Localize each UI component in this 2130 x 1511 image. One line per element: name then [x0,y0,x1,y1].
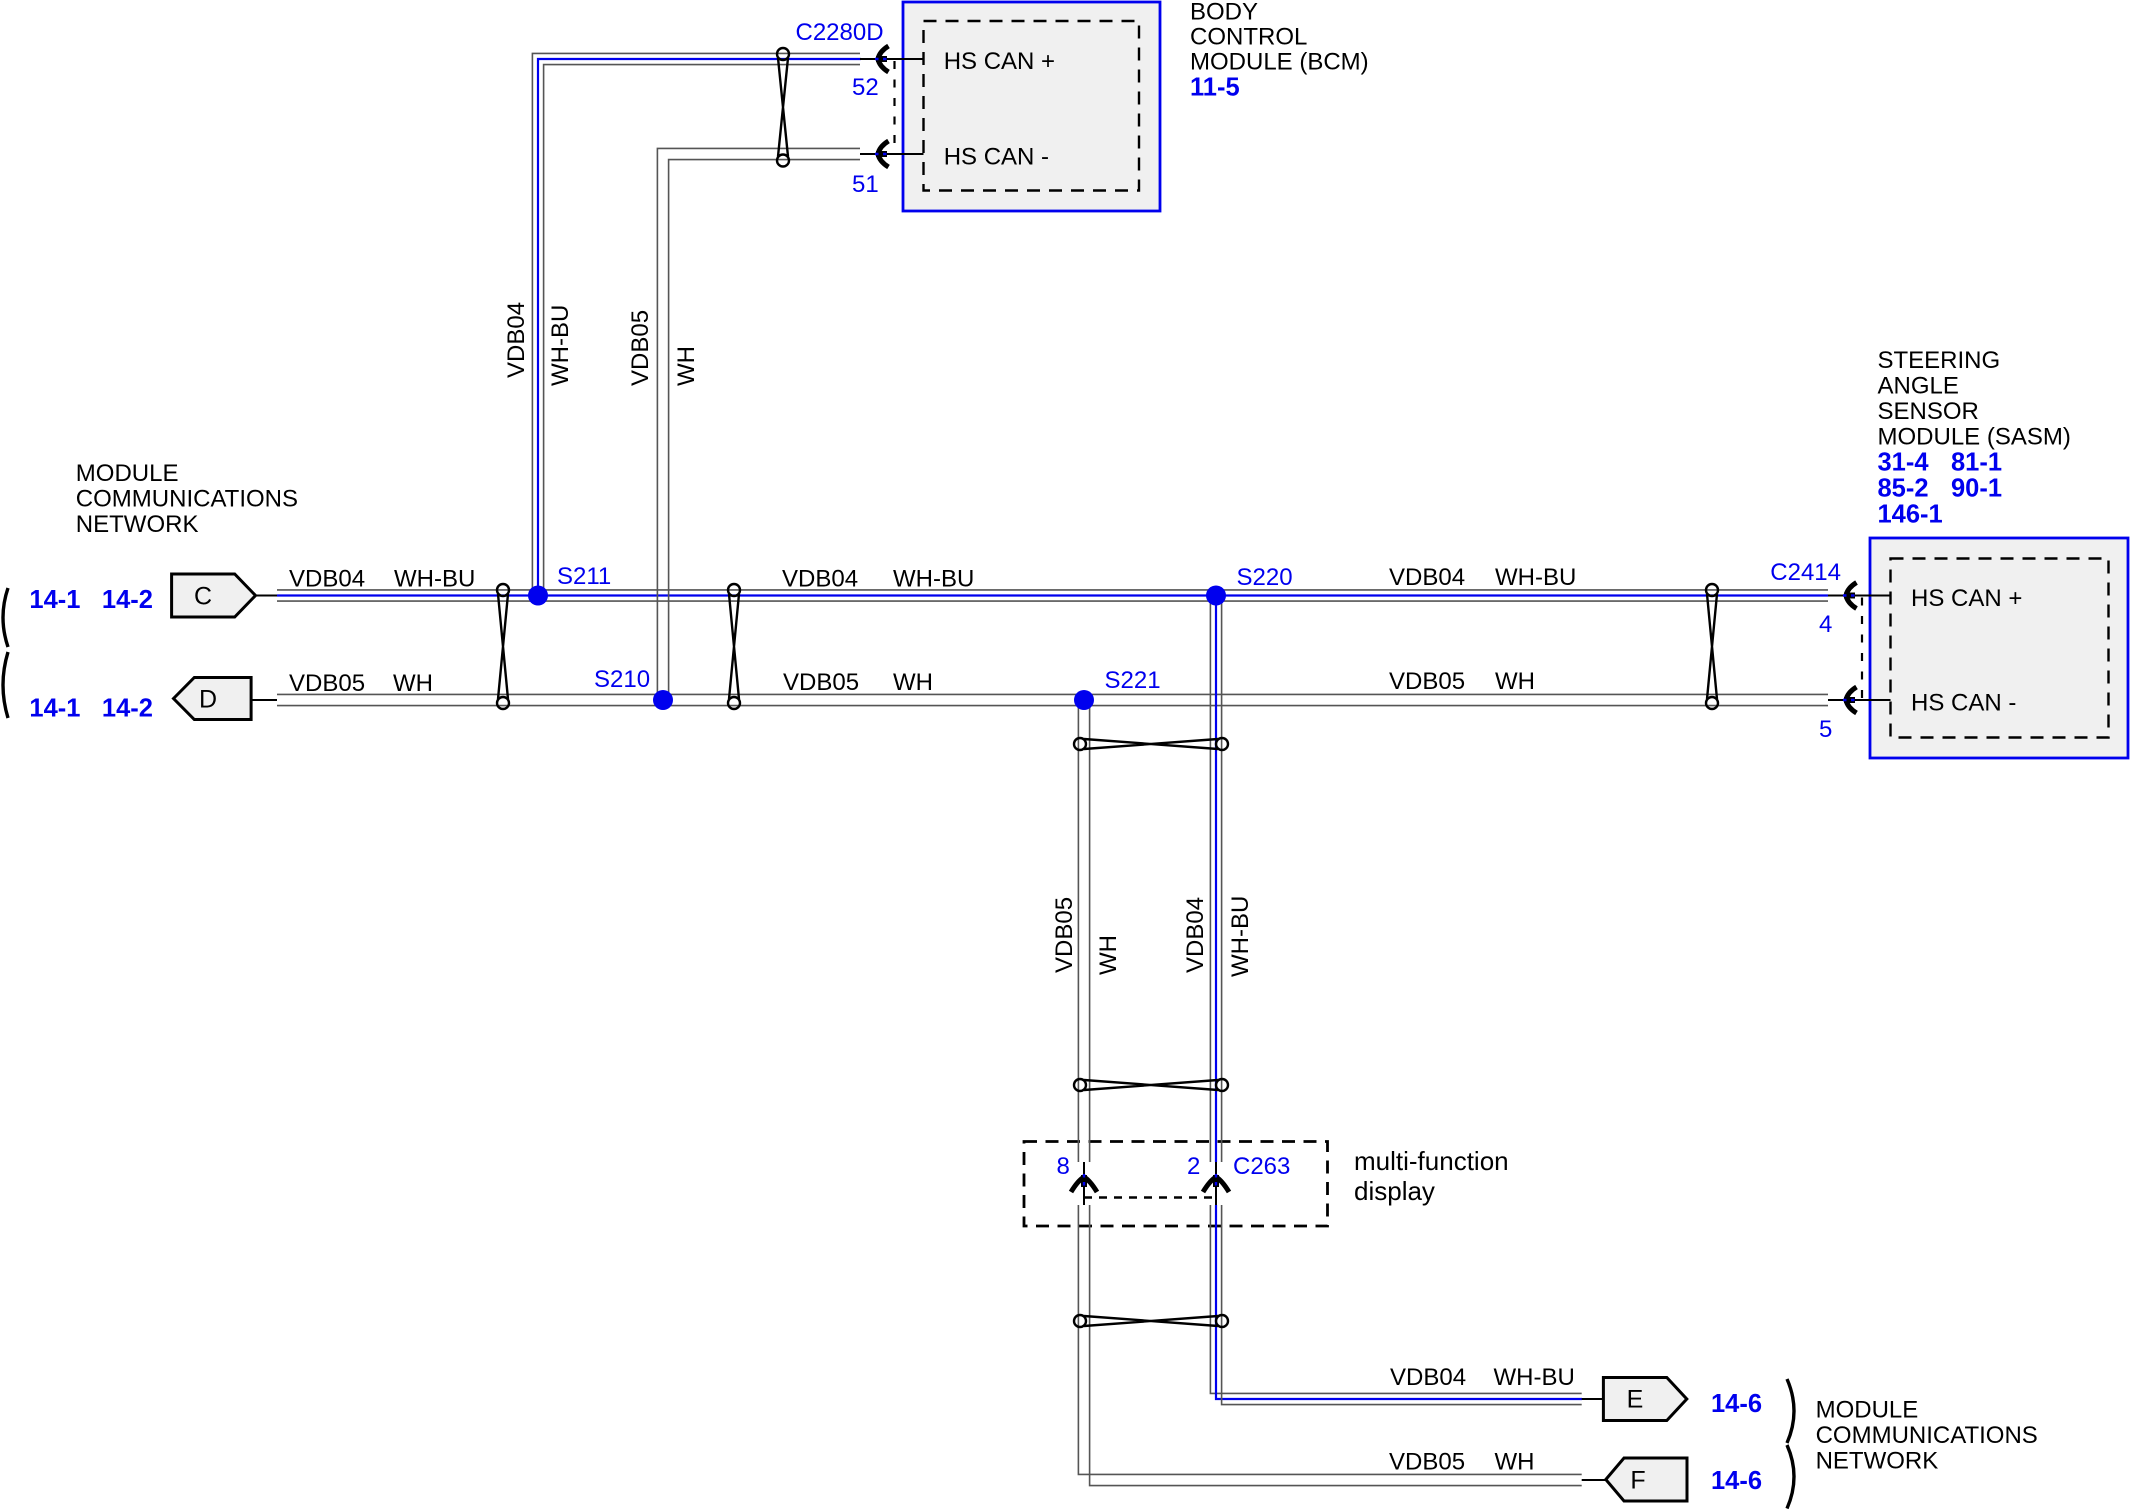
svg-text:VDB04: VDB04 [289,566,365,593]
svg-text:WH: WH [1495,1448,1535,1475]
svg-text:VDB04: VDB04 [782,566,858,593]
twisted pair symbol on display branch below S221 [1074,738,1086,750]
svg-text:2: 2 [1187,1153,1200,1180]
svg-text:E: E [1627,1386,1644,1414]
wire below display pin 2 to connector E [1210,1205,1581,1393]
svg-text:WH: WH [1495,668,1535,695]
wire below display pin 8 to connector F [1078,1205,1581,1474]
brace for connector C row [3,588,8,647]
off-page connector F [1606,1458,1687,1501]
svg-text:VDB05: VDB05 [289,670,365,697]
svg-text:MODULE: MODULE [76,460,179,487]
svg-text:S210: S210 [594,666,650,693]
pin 51 arrow at BCM [878,141,889,167]
svg-text:VDB04: VDB04 [1389,564,1465,591]
svg-text:11-5: 11-5 [1190,74,1240,102]
svg-text:C2414: C2414 [1770,559,1841,586]
twisted pair symbol on C/D pair near SASM [1706,584,1718,596]
svg-text:CONTROL: CONTROL [1190,24,1307,51]
splice S210 [653,690,673,710]
twisted pair symbol on C/D pair near connectors [497,584,509,596]
splice S221 [1074,690,1094,710]
svg-text:WH: WH [393,670,433,697]
svg-text:S211: S211 [557,563,611,590]
off-page connector C [172,574,256,617]
svg-text:VDB05: VDB05 [783,669,859,696]
svg-text:BODY: BODY [1190,0,1258,26]
svg-text:31-4: 31-4 [1878,449,1930,477]
pin 52 arrow at BCM [878,46,889,72]
svg-text:14-1: 14-1 [29,586,80,614]
wire branch S211 to BCM pin 52 (VDB04 WH-BU) [532,53,860,595]
svg-text:F: F [1630,1467,1645,1495]
wire branch S220 down to display pin 2 (VDB04 WH-BU) [1209,596,1211,1163]
twisted pair symbol on C/D pair after S211/S210 [728,584,740,596]
BCM inner connector dashed outline [924,21,1140,191]
svg-text:display: display [1354,1176,1435,1206]
svg-text:COMMUNICATIONS: COMMUNICATIONS [76,486,298,513]
svg-text:C2280D: C2280D [796,19,884,46]
wire lead from connector C [256,595,278,597]
svg-text:14-6: 14-6 [1711,1390,1762,1418]
svg-text:14-2: 14-2 [102,695,153,723]
svg-text:90-1: 90-1 [1951,475,2002,503]
brace for connector D row [3,652,8,718]
svg-text:8: 8 [1057,1153,1070,1180]
svg-text:51: 51 [852,171,879,198]
wire branch S210 to BCM pin 51 (VDB05 WH) [657,148,860,700]
svg-text:C263: C263 [1233,1153,1290,1180]
svg-text:4: 4 [1819,611,1832,638]
svg-text:ANGLE: ANGLE [1878,373,1959,400]
svg-text:VDB05: VDB05 [627,310,654,386]
svg-text:MODULE (SASM): MODULE (SASM) [1878,424,2071,451]
svg-text:HS CAN +: HS CAN + [944,48,1055,75]
svg-text:14-6: 14-6 [1711,1467,1762,1495]
wire VDB05 WH main bus (D wire, y=700) [277,693,1828,695]
svg-text:S220: S220 [1237,564,1293,591]
svg-text:VDB05: VDB05 [1389,1448,1465,1475]
svg-text:HS CAN +: HS CAN + [1911,585,2022,612]
connector C2414 dashed link between pins 4/5 [1861,598,1863,701]
svg-text:VDB04: VDB04 [1182,897,1209,973]
connector C2280D dashed link between pins 52/51 [893,61,895,154]
pin lead lines at SASM [1828,595,1891,597]
off-page connector E [1603,1378,1686,1421]
pin 2 arrow at display [1203,1177,1229,1192]
svg-text:C: C [194,583,212,611]
svg-text:85-2: 85-2 [1878,475,1929,503]
svg-text:52: 52 [852,74,879,101]
module U2: steering angle sensor module (SASM) box [1870,538,2128,758]
wire branch S221 down to display pin 8 (VDB05 WH) [1077,700,1079,1162]
svg-text:WH-BU: WH-BU [893,566,974,593]
svg-text:SENSOR: SENSOR [1878,398,1979,425]
wire lead to connector F [1582,1479,1606,1481]
svg-text:WH: WH [893,669,933,696]
svg-text:S221: S221 [1105,667,1161,694]
svg-text:WH-BU: WH-BU [1494,1364,1575,1391]
svg-text:HS CAN -: HS CAN - [1911,690,2016,717]
twisted pair symbol on display branch below display box [1074,1315,1086,1327]
svg-text:NETWORK: NETWORK [1816,1448,1939,1475]
connector C263 dashed link between pins 8/2 [1084,1196,1216,1199]
svg-text:WH-BU: WH-BU [547,305,574,386]
svg-text:VDB05: VDB05 [1389,668,1465,695]
svg-text:81-1: 81-1 [1951,449,2002,477]
svg-text:VDB05: VDB05 [1051,897,1078,973]
svg-text:WH-BU: WH-BU [394,566,475,593]
svg-text:14-2: 14-2 [102,586,153,614]
module U3: multi-function display dashed box [1024,1142,1328,1227]
twisted pair symbol on display branch above display box [1074,1079,1086,1091]
svg-text:WH: WH [1095,935,1122,975]
wire VDB04 WH-BU main bus (C wire, y=595.5) [277,589,1828,591]
splice S211 [528,586,548,606]
wire lead from connector D [251,699,277,701]
svg-text:D: D [199,686,217,714]
svg-text:146-1: 146-1 [1878,501,1943,529]
brace for connector F row [1787,1445,1794,1509]
svg-text:VDB04: VDB04 [503,302,530,378]
svg-text:VDB04: VDB04 [1390,1364,1466,1391]
svg-text:5: 5 [1819,716,1832,743]
wire lead to connector E [1582,1398,1604,1400]
pin lead lines at BCM [860,58,924,60]
module U1: body control module (BCM) box [903,2,1160,211]
splice S220 [1206,586,1226,606]
svg-text:WH-BU: WH-BU [1227,896,1254,977]
pin 8 arrow at display [1071,1177,1097,1192]
svg-text:WH: WH [673,346,700,386]
svg-text:WH-BU: WH-BU [1495,564,1576,591]
pin lead lines at display C263 [1083,1162,1085,1205]
svg-text:multi-function: multi-function [1354,1146,1509,1176]
svg-text:14-1: 14-1 [29,695,80,723]
twisted pair symbol on BCM branch pair [777,48,789,60]
SASM inner connector dashed outline [1891,559,2109,738]
brace for connector E row [1787,1379,1794,1443]
pin 5 arrow at SASM [1846,687,1857,713]
off-page connector D [174,678,252,720]
svg-text:HS CAN -: HS CAN - [944,144,1049,171]
svg-text:NETWORK: NETWORK [76,511,199,538]
svg-text:MODULE: MODULE [1816,1397,1919,1424]
pin 4 arrow at SASM [1846,583,1857,609]
svg-text:STEERING: STEERING [1878,347,2001,374]
svg-text:COMMUNICATIONS: COMMUNICATIONS [1816,1422,2038,1449]
svg-text:MODULE (BCM): MODULE (BCM) [1190,49,1369,76]
